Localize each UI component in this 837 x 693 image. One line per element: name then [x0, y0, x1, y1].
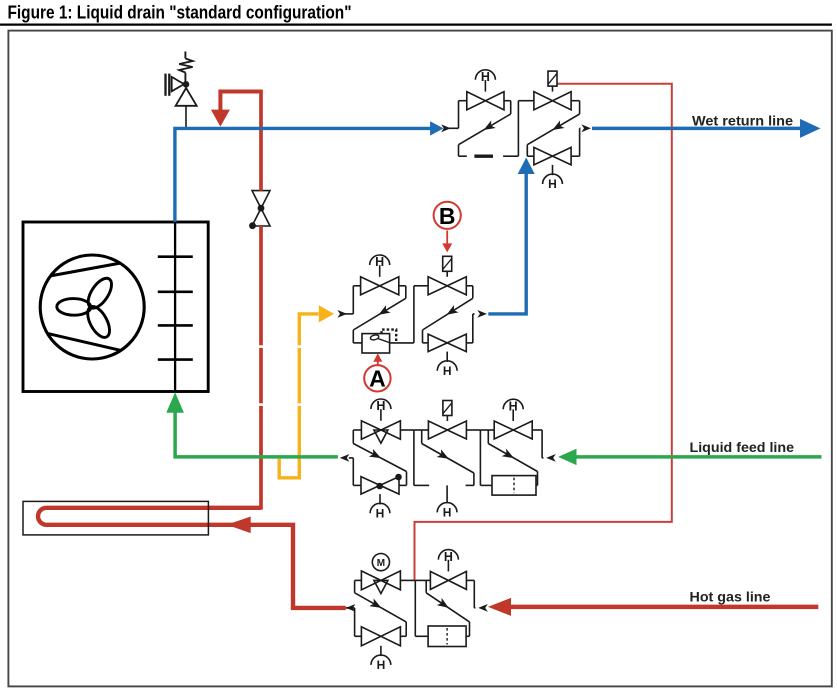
svg-text:Hot gas line: Hot gas line — [690, 588, 771, 604]
motor actuator 4L — [372, 554, 389, 571]
solenoid actuator 1R — [548, 71, 557, 92]
flow arrow 2L diagonal — [376, 305, 390, 318]
svg-text:H: H — [443, 506, 452, 520]
svg-text:H: H — [509, 399, 518, 413]
valve SVA stop 4L bottom — [361, 627, 400, 646]
svg-text:H: H — [376, 399, 385, 413]
wire shared riser 3M-3R — [479, 430, 481, 485]
wire red pilot line solenoid to hot-gas station — [415, 84, 672, 580]
pilot arrow A — [373, 353, 382, 365]
strainer FIA 4R — [428, 626, 466, 647]
hand actuator 1R bottom — [543, 165, 563, 191]
wire 2R station piping — [414, 286, 475, 343]
node drain station outlet arrow — [477, 310, 487, 318]
svg-text:H: H — [377, 658, 386, 672]
node hot gas station inlet arrow — [478, 604, 488, 612]
wire yellow oil return line — [279, 305, 334, 478]
flow arrow 3L diagonal — [369, 449, 383, 462]
node drain station inlet arrow — [337, 310, 353, 318]
flow arrow 3M diagonal — [437, 449, 451, 462]
solenoid actuator 2R — [443, 256, 452, 277]
wire 3R station piping — [480, 430, 543, 485]
svg-text:M: M — [377, 558, 385, 569]
node A marker — [364, 365, 390, 392]
wire red drain to wet return with down arrow — [211, 92, 261, 127]
crossing gaps — [259, 345, 302, 406]
node wet return station inlet arrow — [441, 124, 458, 132]
flow arrow 4R diagonal — [437, 598, 451, 612]
valve SVA stop 4R — [430, 571, 466, 589]
hand actuator 3L — [371, 399, 391, 421]
wire shared riser 4L-4R — [414, 580, 416, 636]
wire blue evaporator outlet — [175, 121, 444, 222]
svg-text:Figure 1: Liquid drain "standa: Figure 1: Liquid drain "standard configu… — [8, 3, 352, 23]
node hot gas station outlet arrow — [346, 604, 356, 612]
evaporator coil header line with ticks — [158, 222, 193, 392]
evaporator fan symbol — [40, 255, 144, 359]
hand actuator 2L — [370, 255, 390, 277]
wire 3L station piping — [353, 430, 414, 485]
wire green liquid feed line right — [558, 449, 821, 465]
wire 4R station piping — [415, 580, 475, 636]
valve ICS servo body 2L — [362, 334, 390, 353]
title underline rule — [0, 24, 832, 26]
valve ICM motor 4L — [361, 571, 400, 594]
node wet return station outlet arrow — [581, 124, 591, 132]
hand actuator 3M bottom stub — [437, 485, 457, 519]
flow arrow 2R diagonal — [444, 305, 458, 319]
wire blue station riser to wet return — [488, 158, 534, 314]
valve SVA stop 3L bottom — [361, 474, 402, 494]
svg-text:H: H — [444, 550, 453, 564]
hand actuator 3L bottom — [370, 494, 390, 520]
valve SVA stop 3R — [494, 421, 532, 439]
valve SVA stop 2R bottom — [428, 334, 466, 352]
node feed station outlet arrow — [340, 454, 354, 462]
wire red hot gas riser lower — [259, 226, 263, 510]
svg-text:Wet return line: Wet return line — [692, 112, 793, 128]
evaporator unit box — [23, 222, 208, 392]
svg-text:A: A — [369, 366, 386, 392]
flow arrow 1R diagonal — [550, 120, 564, 133]
strainer FIA 3R — [492, 476, 536, 496]
vertical stop valve on hot gas riser — [249, 191, 270, 230]
wire red hot gas riser upper — [259, 90, 263, 191]
flow arrow 3R diagonal — [502, 449, 516, 462]
solenoid actuator 3M — [443, 401, 452, 422]
hand actuator 3R — [503, 399, 523, 421]
pilot arrow B — [442, 231, 452, 253]
wire 3M station piping — [414, 430, 481, 485]
svg-text:H: H — [375, 255, 384, 269]
wire blue wet return line out — [592, 119, 821, 138]
wire red drain pan coil — [38, 508, 346, 608]
valve REG regulating 3L — [361, 421, 400, 443]
hand actuator 1L — [475, 70, 495, 92]
svg-text:H: H — [443, 364, 452, 378]
flow arrow 4L diagonal — [369, 598, 383, 611]
hand actuator 4L bottom — [371, 646, 391, 672]
svg-text:H: H — [376, 506, 385, 520]
wire 1L station piping — [459, 101, 511, 157]
wire 4L station piping — [355, 580, 416, 636]
svg-text:H: H — [481, 70, 490, 84]
label wet return line — [692, 112, 793, 128]
node feed station inlet arrow — [546, 454, 556, 462]
valve SVA stop 1L — [467, 92, 504, 110]
node B marker — [434, 202, 461, 229]
valve ICS solenoid 2R — [428, 277, 466, 295]
wire 2L station piping — [353, 286, 414, 343]
valve ICS solenoid 1R — [534, 92, 571, 110]
drain pan outline — [23, 501, 208, 535]
valve ICS solenoid 3M — [428, 421, 466, 439]
pilot dashed line 2L — [382, 330, 397, 343]
wire green liquid feed to evaporator — [166, 392, 338, 457]
hand actuator 2R bottom — [437, 352, 457, 378]
wire shared riser 3L-3M — [413, 430, 415, 485]
hand actuator 4R — [438, 550, 458, 572]
svg-text:B: B — [439, 203, 456, 229]
relief valve PSV — [166, 52, 197, 129]
valve SVA stop 1R bottom — [534, 147, 571, 165]
valve SVA stop 2L — [361, 277, 399, 295]
label hot gas line — [690, 588, 771, 604]
wire red hot gas feed line — [488, 598, 818, 616]
wire 1L dashed bottom spool — [459, 155, 519, 157]
title: figure caption — [8, 3, 352, 23]
svg-text:Liquid feed line: Liquid feed line — [690, 439, 795, 455]
flow arrow 1L diagonal — [481, 120, 495, 133]
label liquid feed line — [690, 439, 795, 455]
svg-text:H: H — [548, 177, 557, 191]
wire 1R station piping — [518, 101, 580, 157]
